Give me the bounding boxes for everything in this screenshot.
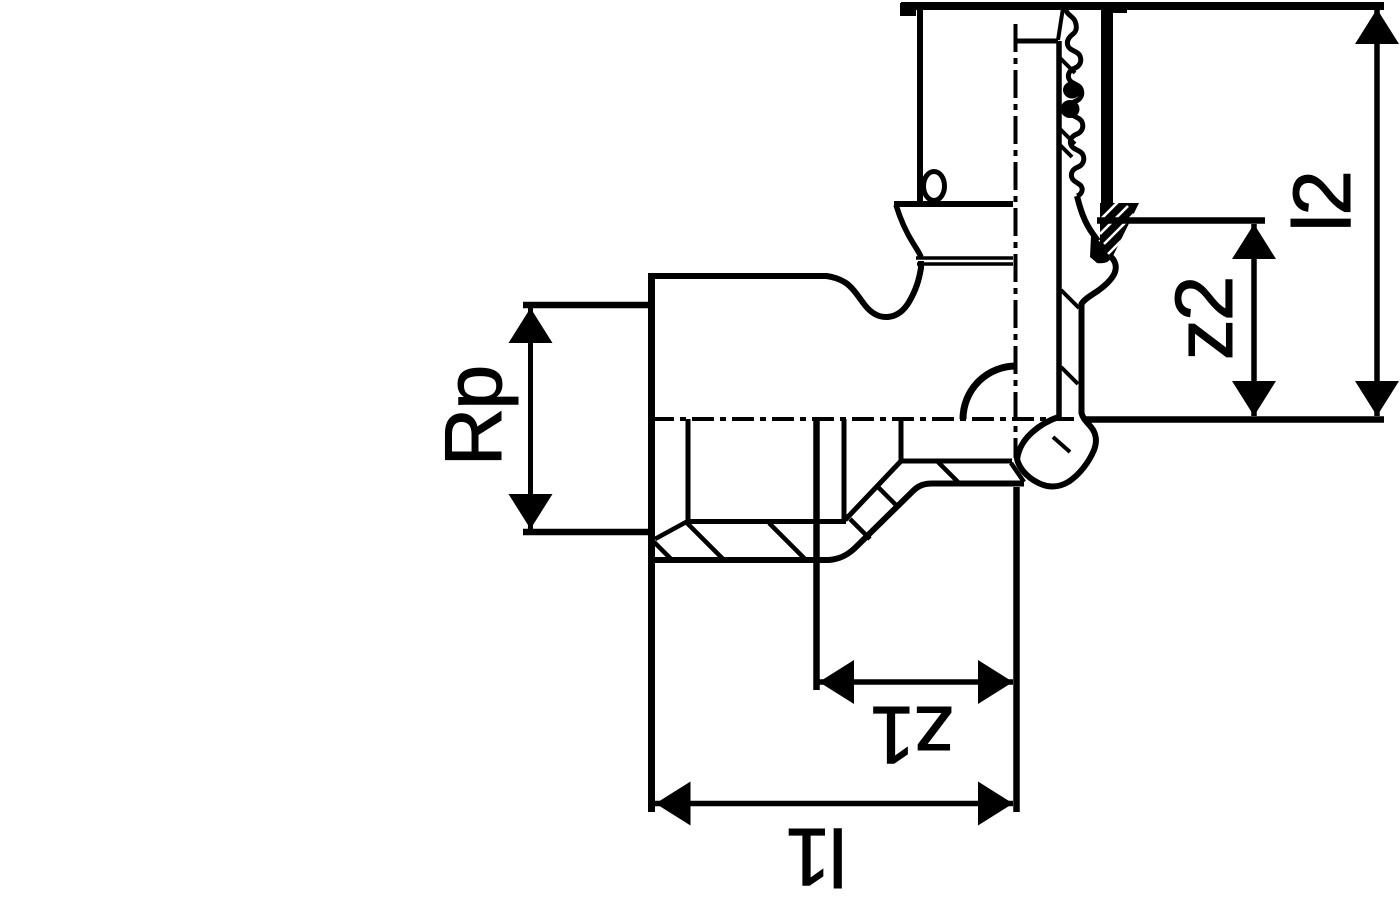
dimension l1 arrows: [656, 782, 691, 826]
socket hatching: [654, 542, 672, 560]
thread chamfer: [655, 521, 688, 539]
press collar top: [894, 201, 1013, 207]
dimension z2 extension top: [1097, 217, 1265, 224]
body top edge: [651, 273, 828, 279]
svg-text:l1: l1: [787, 811, 847, 900]
dimension z2 arrows: [1232, 224, 1276, 259]
pipe break end cap left: [900, 3, 916, 16]
vertical leg outer wall right: [1079, 303, 1085, 414]
dimension l2 arrows: [1355, 9, 1399, 44]
press collar flare: [896, 205, 921, 257]
dimension Rp line: [528, 308, 533, 529]
dimension z1 line: [819, 679, 1013, 685]
fitting bore wall right: [1056, 41, 1062, 419]
o-ring seals filled: [1063, 82, 1081, 99]
nipple wall hatching: [1059, 57, 1075, 73]
z1 reference line: [813, 419, 820, 690]
dimension Rp arrows: [509, 308, 553, 343]
press collar underside double line: [916, 256, 1013, 260]
o-ring housing bump: [1082, 256, 1116, 312]
pipe end contour: [1077, 196, 1098, 241]
bore cone: [845, 461, 901, 520]
pipe end blob: [1090, 236, 1110, 263]
press sleeve top lip: [1113, 6, 1127, 13]
thread runout line: [842, 419, 847, 519]
body bottom edge and cone to corner: [655, 484, 1024, 561]
nipple top face: [1015, 39, 1058, 44]
nipple tip chamfer: [1058, 8, 1063, 40]
inspection hole: [924, 172, 945, 201]
svg-text:Rp: Rp: [429, 367, 519, 467]
upper inner corner arc: [963, 366, 1016, 419]
body groove: [826, 261, 921, 317]
corner bore line: [900, 459, 1012, 464]
svg-text:l2: l2: [1277, 172, 1368, 232]
bottom extension for z2 l2: [1085, 416, 1384, 423]
elbow corner inner contour: [1017, 417, 1058, 459]
dimension Rp extension top: [523, 302, 651, 309]
dimension z2 line: [1251, 224, 1257, 416]
centerline vertical: [1014, 24, 1018, 458]
socket face line and l1 extension: [648, 273, 655, 812]
press sleeve wall right: [1101, 8, 1113, 205]
pipe outer wall left: [917, 8, 923, 204]
svg-text:z2: z2: [1159, 278, 1250, 361]
elbow corner outer contour: [1017, 413, 1096, 487]
serration profile: [1066, 8, 1084, 196]
svg-text:z1: z1: [872, 689, 955, 780]
pipe break line top / l2 top extension: [901, 2, 1384, 10]
cone start line: [899, 419, 904, 461]
vertical leg wall hatching: [1061, 290, 1079, 308]
thread start line: [686, 419, 691, 521]
dimension l2 line: [1374, 9, 1380, 416]
l1 z1 right extension: [1013, 487, 1020, 812]
thread bore line: [687, 519, 846, 524]
dimension Rp extension bottom: [523, 529, 651, 536]
centerline horizontal: [652, 417, 1078, 421]
dimension l1 line: [655, 801, 1013, 807]
dimension z1 arrows: [819, 660, 854, 704]
